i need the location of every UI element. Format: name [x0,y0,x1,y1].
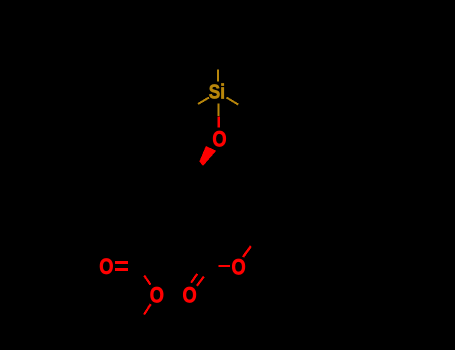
svg-text:O: O [183,283,197,308]
svg-text:O: O [99,254,113,279]
svg-text:O: O [232,254,246,279]
svg-text:O: O [212,126,226,151]
svg-text:O: O [150,282,164,307]
svg-text:Si: Si [209,81,225,103]
